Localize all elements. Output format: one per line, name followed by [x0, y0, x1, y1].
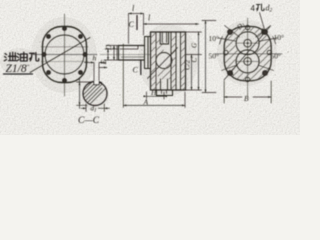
svg-text:D: D — [104, 44, 113, 51]
svg-text:50°: 50° — [209, 52, 220, 61]
svg-text:50°: 50° — [271, 52, 282, 61]
svg-text:C: C — [129, 20, 135, 29]
svg-text:C: C — [191, 58, 199, 63]
svg-text:4: 4 — [251, 4, 256, 13]
svg-text:10°: 10° — [209, 34, 220, 43]
svg-text:A: A — [143, 98, 149, 107]
svg-text:G: G — [191, 43, 199, 48]
svg-text:h: h — [93, 54, 97, 63]
svg-text:C: C — [133, 66, 139, 75]
svg-text:E: E — [99, 60, 108, 66]
svg-text:Z1/8˝: Z1/8˝ — [6, 63, 30, 75]
svg-text:C—C: C—C — [78, 116, 100, 126]
svg-text:H: H — [150, 88, 157, 97]
svg-text:B: B — [244, 94, 249, 103]
svg-text:10°: 10° — [274, 33, 285, 42]
